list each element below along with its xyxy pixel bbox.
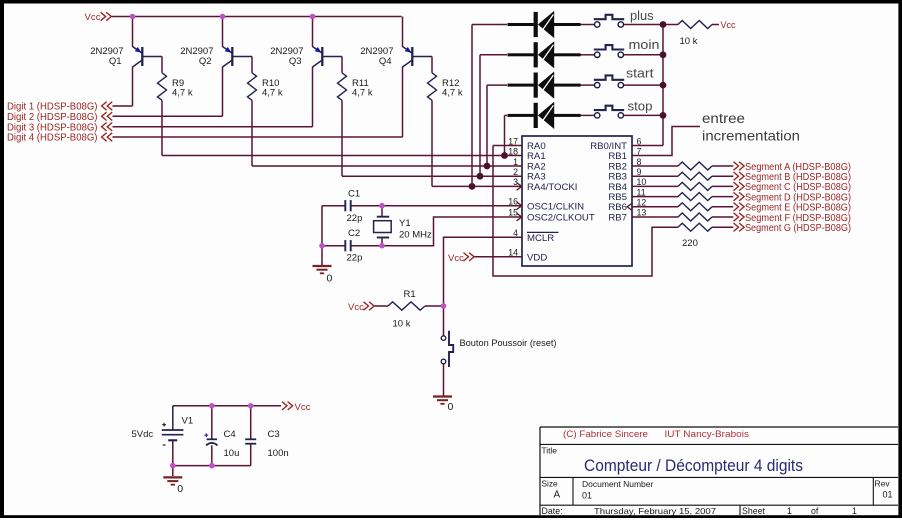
- svg-text:Segment G (HDSP-B08G): Segment G (HDSP-B08G): [745, 223, 851, 234]
- svg-text:moin: moin: [629, 38, 660, 52]
- svg-text:220: 220: [682, 238, 698, 249]
- svg-text:10 k: 10 k: [393, 319, 411, 330]
- svg-text:2: 2: [513, 167, 518, 177]
- svg-text:4,7 k: 4,7 k: [262, 87, 283, 98]
- svg-text:OSC1/CLKIN: OSC1/CLKIN: [527, 201, 584, 212]
- svg-text:Bouton Poussoir (reset): Bouton Poussoir (reset): [460, 338, 557, 348]
- svg-text:plus: plus: [630, 9, 654, 23]
- svg-text:stop: stop: [628, 100, 653, 114]
- svg-text:Digit 4 (HDSP-B08G): Digit 4 (HDSP-B08G): [7, 133, 98, 144]
- svg-text:IUT Nancy-Brabois: IUT Nancy-Brabois: [665, 429, 750, 440]
- svg-text:4,7 k: 4,7 k: [172, 87, 193, 98]
- svg-text:Title: Title: [542, 446, 558, 456]
- svg-text:Vcc: Vcc: [348, 302, 364, 313]
- svg-text:RB3: RB3: [608, 172, 627, 183]
- svg-text:Vcc: Vcc: [295, 402, 311, 413]
- svg-text:0: 0: [327, 273, 333, 285]
- svg-text:Thursday, February 15, 2007: Thursday, February 15, 2007: [594, 506, 716, 516]
- svg-text:VDD: VDD: [527, 252, 547, 263]
- svg-text:10: 10: [637, 177, 647, 187]
- svg-text:incrementation: incrementation: [702, 129, 800, 144]
- svg-text:Q3: Q3: [289, 56, 302, 67]
- svg-text:100n: 100n: [268, 448, 289, 459]
- svg-text:R1: R1: [404, 289, 416, 300]
- svg-text:OSC2/CLKOUT: OSC2/CLKOUT: [527, 213, 595, 224]
- svg-text:1: 1: [513, 157, 518, 167]
- svg-text:14: 14: [508, 248, 518, 258]
- svg-text:9: 9: [637, 167, 642, 177]
- svg-text:12: 12: [637, 198, 647, 208]
- svg-text:RB7: RB7: [608, 213, 627, 224]
- svg-text:A: A: [554, 490, 561, 501]
- svg-text:RA3: RA3: [527, 172, 546, 183]
- svg-text:Q2: Q2: [199, 56, 212, 67]
- svg-text:0: 0: [448, 401, 454, 413]
- svg-text:Compteur / Décompteur 4 digits: Compteur / Décompteur 4 digits: [584, 457, 803, 475]
- svg-text:Date:: Date:: [542, 506, 563, 516]
- svg-text:C1: C1: [348, 188, 360, 199]
- svg-text:17: 17: [508, 136, 518, 146]
- svg-text:entree: entree: [702, 111, 745, 126]
- svg-text:10 k: 10 k: [680, 36, 698, 47]
- svg-text:Vcc: Vcc: [85, 12, 101, 23]
- svg-text:3: 3: [513, 177, 518, 187]
- svg-text:10u: 10u: [224, 448, 240, 459]
- svg-text:01: 01: [582, 490, 592, 500]
- svg-text:4: 4: [513, 228, 518, 238]
- svg-text:20 MHz: 20 MHz: [399, 230, 432, 241]
- svg-text:1: 1: [852, 506, 857, 516]
- svg-text:MCLR: MCLR: [527, 233, 554, 244]
- svg-text:Vcc: Vcc: [448, 253, 464, 264]
- svg-text:of: of: [811, 506, 819, 516]
- svg-text:Q4: Q4: [379, 56, 392, 67]
- svg-text:01: 01: [883, 489, 893, 499]
- svg-text:Digit 2 (HDSP-B08G): Digit 2 (HDSP-B08G): [7, 112, 98, 123]
- svg-text:8: 8: [637, 157, 642, 167]
- svg-text:4,7 k: 4,7 k: [352, 87, 373, 98]
- svg-text:Size: Size: [542, 479, 559, 489]
- svg-text:22p: 22p: [347, 252, 363, 263]
- svg-text:Q1: Q1: [109, 56, 122, 67]
- svg-text:Vcc: Vcc: [721, 20, 737, 30]
- svg-text:C3: C3: [268, 429, 280, 440]
- svg-text:1: 1: [787, 506, 792, 516]
- svg-text:6: 6: [637, 136, 642, 146]
- svg-text:15: 15: [508, 208, 518, 218]
- svg-text:0: 0: [177, 483, 183, 495]
- svg-text:7: 7: [637, 147, 642, 157]
- svg-text:start: start: [626, 66, 654, 80]
- svg-text:18: 18: [508, 147, 518, 157]
- svg-text:C2: C2: [348, 228, 360, 239]
- svg-text:11: 11: [637, 187, 646, 197]
- svg-text:4,7 k: 4,7 k: [442, 87, 463, 98]
- svg-text:(C) Fabrice Sincere: (C) Fabrice Sincere: [563, 429, 648, 440]
- svg-text:16: 16: [508, 197, 518, 207]
- svg-text:C4: C4: [224, 429, 236, 440]
- svg-text:Document Number: Document Number: [582, 479, 654, 489]
- svg-text:RB6: RB6: [608, 202, 627, 213]
- svg-text:Rev: Rev: [875, 479, 891, 489]
- svg-text:22p: 22p: [347, 213, 363, 224]
- svg-text:5Vdc: 5Vdc: [132, 429, 154, 440]
- svg-text:Y1: Y1: [399, 218, 411, 229]
- svg-text:V1: V1: [182, 416, 194, 427]
- svg-text:RA4/TOCKI: RA4/TOCKI: [527, 182, 577, 193]
- svg-text:Sheet: Sheet: [742, 506, 766, 516]
- svg-text:13: 13: [637, 208, 647, 218]
